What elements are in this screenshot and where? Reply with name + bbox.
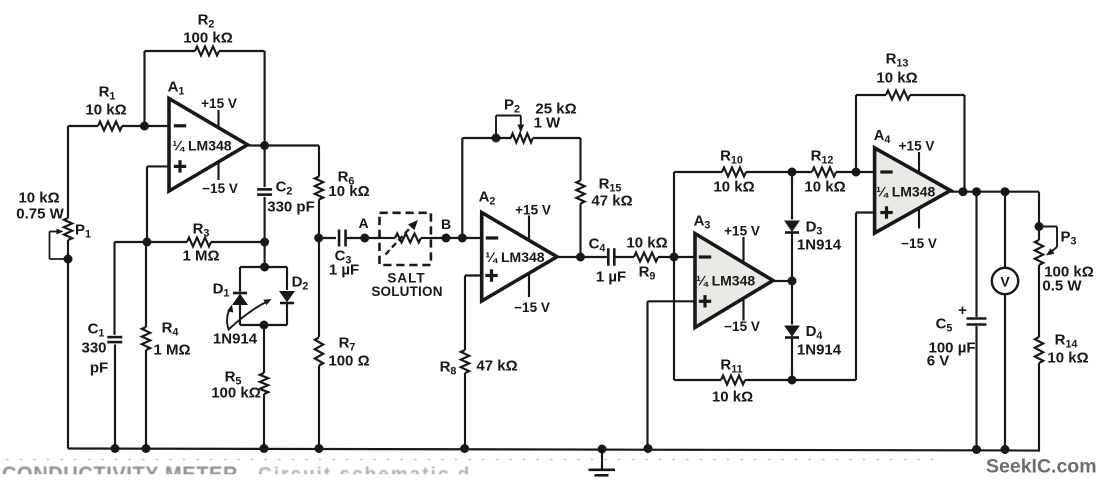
node - output junction with C5 [972, 187, 981, 196]
node - voltmeter at ground rail [1001, 445, 1010, 454]
svg-text:47 kΩ: 47 kΩ [476, 357, 517, 374]
node - junction with P2 branch [458, 234, 467, 243]
node - C1 at ground rail [111, 444, 120, 453]
salt solution cell - dashed box with variable resistor [380, 213, 431, 265]
power +15V stub of A3 [742, 237, 744, 263]
wire - net at R3 line [115, 241, 188, 243]
resistor R1 [68, 125, 98, 127]
wire - A2 noninverting input branch [465, 274, 482, 276]
svg-text:R7: R7 [339, 334, 356, 353]
wire - C2 node down to diode pair block [264, 242, 266, 267]
node - A3 output junction [788, 277, 797, 286]
svg-text:SeekIC.com: SeekIC.com [986, 456, 1097, 478]
node - R4 at ground rail [142, 444, 151, 453]
svg-text:R8: R8 [440, 358, 457, 377]
svg-text:Circuit schematic d: Circuit schematic d [258, 465, 471, 484]
svg-text:A4: A4 [874, 127, 891, 146]
svg-text:6 V: 6 V [927, 352, 950, 369]
svg-text:0.5 W: 0.5 W [1042, 277, 1082, 294]
svg-text:100 Ω: 100 Ω [328, 352, 369, 369]
svg-text:+: + [958, 302, 967, 319]
node - A3 plus branch at ground rail [644, 444, 653, 453]
node - A2 output junction [576, 253, 585, 262]
power -15V stub of A3 [742, 299, 744, 321]
node - R5 at ground rail [260, 444, 269, 453]
svg-text:−15 V: −15 V [901, 236, 937, 251]
svg-text:+15 V: +15 V [899, 138, 935, 153]
svg-text:R11: R11 [720, 356, 742, 375]
wire - A3 output to diode junction [773, 280, 792, 282]
node - A1 inverting input junction [140, 122, 149, 131]
capacitor C1 [113, 242, 115, 335]
svg-text:10 kΩ: 10 kΩ [626, 234, 667, 251]
node - junction R3 line with C2 branch [260, 238, 269, 247]
svg-text:10 kΩ: 10 kΩ [712, 388, 753, 405]
potentiometer P2 feedback of A2 [461, 138, 463, 238]
svg-text:A: A [359, 215, 369, 231]
svg-text:B: B [441, 216, 451, 232]
resistor R14 [1038, 265, 1040, 337]
svg-text:¼ LM348: ¼ LM348 [876, 184, 935, 200]
op-amp U2 A2 quarter LM348 [482, 213, 557, 302]
svg-text:−15 V: −15 V [724, 319, 760, 334]
resistor R8 [461, 350, 469, 373]
svg-text:1N914: 1N914 [797, 236, 842, 253]
resistor R6 [318, 146, 320, 177]
svg-text:1 MΩ: 1 MΩ [182, 247, 219, 264]
svg-text:D2: D2 [292, 273, 309, 292]
resistor R3 [211, 241, 265, 243]
svg-text:¼ LM348: ¼ LM348 [485, 249, 544, 265]
wire - A1 output to R6 corner [248, 144, 320, 146]
svg-text:10 kΩ: 10 kΩ [18, 189, 59, 206]
voltmeter V [1004, 192, 1006, 268]
wire - vertical joining R10 R9 R11 [673, 172, 675, 380]
resistor R4 [145, 242, 147, 327]
potentiometer P3 [1038, 192, 1040, 240]
power -15V stub of A2 [528, 273, 530, 297]
svg-text:R2: R2 [198, 11, 215, 30]
capacitor C2 [264, 146, 266, 188]
svg-text:1 MΩ: 1 MΩ [153, 341, 190, 358]
svg-text:R13: R13 [886, 50, 909, 69]
svg-text:10 kΩ: 10 kΩ [804, 178, 845, 195]
svg-text:C5: C5 [936, 315, 953, 334]
svg-text:1 W: 1 W [534, 114, 562, 131]
svg-text:R3: R3 [193, 220, 210, 239]
resistor R2 feedback of A1 [143, 51, 145, 126]
power +15V stub of A4 [918, 152, 920, 174]
resistor R13 feedback of A4 [855, 95, 857, 172]
node - C5 at ground rail [972, 445, 981, 454]
svg-text:pF: pF [90, 359, 108, 376]
node - P3 wiper junction [1035, 222, 1044, 231]
node - output junction with R13 [959, 187, 968, 196]
wire - A4 output line [951, 191, 1040, 193]
svg-text:¼ LM348: ¼ LM348 [696, 273, 755, 289]
resistor R12 [792, 171, 812, 173]
potentiometer P1 [64, 218, 72, 240]
svg-text:10 kΩ: 10 kΩ [1047, 349, 1088, 366]
svg-text:10 kΩ: 10 kΩ [876, 69, 917, 86]
resistor R5 [263, 325, 265, 373]
node - output junction with voltmeter [1001, 187, 1010, 196]
op-amp U1 A1 quarter LM348 [169, 99, 248, 192]
capacitor C4 [607, 248, 610, 266]
capacitor C5 electrolytic [975, 192, 977, 317]
svg-text:R4: R4 [162, 319, 179, 338]
node - junction D4 R11 [788, 376, 797, 385]
svg-text:100 kΩ: 100 kΩ [183, 29, 233, 46]
svg-text:1 µF: 1 µF [596, 268, 626, 285]
svg-text:¼ LM348: ¼ LM348 [172, 138, 231, 154]
ground symbol [598, 445, 607, 454]
svg-text:A1: A1 [168, 78, 185, 97]
caption dotted fold line [6, 459, 940, 461]
resistor R7 [318, 238, 320, 337]
svg-text:−15 V: −15 V [202, 181, 238, 196]
node - A1 output junction with C2 [260, 141, 269, 150]
svg-text:D4: D4 [806, 323, 823, 342]
svg-text:A3: A3 [694, 212, 711, 231]
wire - A4 noninverting input branch to R11 line [856, 211, 875, 213]
node - bottom of diode pair [260, 321, 269, 330]
node A [360, 234, 369, 243]
diode D2 1N914 [286, 267, 288, 290]
capacitor C3 [319, 237, 336, 239]
wire - diode block bottom horizontal [240, 324, 287, 326]
svg-text:1N914: 1N914 [213, 330, 258, 347]
svg-text:−15 V: −15 V [514, 300, 550, 315]
svg-text:C4: C4 [589, 235, 606, 254]
svg-text:C1: C1 [88, 320, 105, 339]
op-amp U4 A4 quarter LM348 [875, 148, 951, 233]
node - junction R12 R13 at A4 inverting input [852, 168, 861, 177]
svg-text:330: 330 [81, 339, 106, 356]
svg-text:10 kΩ: 10 kΩ [328, 183, 369, 200]
op-amp U3 A3 quarter LM348 [695, 234, 773, 328]
svg-text:330 pF: 330 pF [267, 198, 315, 215]
node - top of diode pair [260, 263, 269, 272]
power -15V stub of A4 [918, 209, 920, 229]
node - R7 at ground rail [315, 444, 324, 453]
node - junction R3 line with A1 plus branch [143, 238, 152, 247]
svg-text:10 kΩ: 10 kΩ [85, 101, 126, 118]
wire - B node to A2 inverting input [431, 237, 482, 239]
svg-text:A2: A2 [479, 188, 496, 207]
wire - A3 noninverting input to ground rail [648, 300, 696, 302]
svg-text:+15 V: +15 V [724, 223, 760, 238]
diode D3 1N914 [791, 172, 793, 220]
wire - A2 output to C4 [557, 256, 607, 258]
node B [442, 234, 451, 243]
svg-text:D3: D3 [806, 218, 823, 237]
svg-text:100 kΩ: 100 kΩ [211, 384, 261, 401]
node - P1 wiper junction [64, 255, 73, 264]
resistor R10 [674, 171, 722, 173]
svg-text:P1: P1 [75, 221, 91, 240]
svg-text:C2: C2 [276, 178, 293, 197]
node - junction R6 R7 C3 [314, 234, 323, 243]
svg-text:0.75 W: 0.75 W [16, 205, 64, 222]
svg-text:CONDUCTIVITY METER: CONDUCTIVITY METER [2, 464, 238, 484]
svg-text:R14: R14 [1055, 331, 1078, 350]
wire - left vertical from R1 down through P1 to ground rail [67, 126, 69, 218]
power +15V stub of A2 [528, 216, 530, 241]
wire - bottom ground rail [68, 449, 1040, 451]
power +15V stub of A1 [217, 110, 219, 128]
wire - A1 noninverting input from R3 node [147, 165, 169, 167]
diode D1 1N914 [239, 267, 241, 292]
svg-text:P3: P3 [1060, 228, 1076, 247]
resistor R15 [579, 138, 581, 181]
svg-text:10 kΩ: 10 kΩ [713, 178, 754, 195]
power -15V stub of A1 [217, 162, 219, 180]
node - junction R10 R12 D3 [788, 168, 797, 177]
svg-text:R10: R10 [720, 147, 743, 166]
svg-text:SOLUTION: SOLUTION [371, 284, 442, 299]
resistor R9 [634, 253, 658, 262]
svg-text:R12: R12 [811, 147, 834, 166]
svg-text:47 kΩ: 47 kΩ [591, 192, 632, 209]
diode D4 1N914 [791, 281, 793, 325]
svg-text:+15 V: +15 V [515, 202, 551, 217]
resistor R11 [674, 379, 721, 381]
wire - diode block top horizontal [240, 266, 287, 268]
caption text cut off at bottom - CONDUCTIVITY METER [0, 0, 1, 1]
svg-text:R1: R1 [99, 83, 116, 102]
node - junction R9 R10 R11 at A3 inverting input [670, 253, 679, 262]
node - R8 at ground rail [460, 444, 469, 453]
svg-text:1 µF: 1 µF [329, 261, 359, 278]
svg-text:V: V [1000, 274, 1010, 290]
svg-text:R9: R9 [639, 263, 656, 282]
svg-text:+15 V: +15 V [201, 96, 237, 111]
svg-text:1N914: 1N914 [797, 341, 842, 358]
svg-text:D1: D1 [213, 280, 230, 299]
svg-text:P2: P2 [504, 96, 520, 115]
